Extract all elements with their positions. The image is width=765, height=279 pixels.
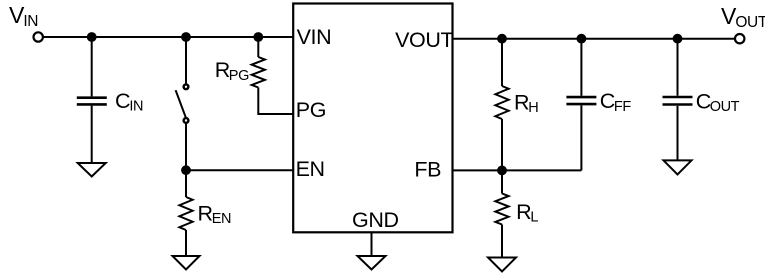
wire: CIN to ground bbox=[91, 106, 93, 163]
capacitor CFF bbox=[566, 96, 596, 99]
node: RH junction on output rail bbox=[498, 35, 506, 43]
wire: COUT to ground bbox=[677, 106, 679, 161]
node: CIN junction bbox=[88, 33, 96, 41]
ground (COUT) bbox=[664, 160, 692, 174]
switch SW lower contact bbox=[184, 118, 189, 123]
wire: RL to ground bbox=[501, 225, 503, 258]
wire: down to CIN bbox=[91, 37, 93, 96]
wire: down to COUT bbox=[677, 39, 679, 96]
label RPG bbox=[215, 58, 249, 84]
svg-text:EN: EN bbox=[296, 157, 325, 181]
svg-text:R: R bbox=[198, 202, 213, 226]
wire: down to RH bbox=[501, 39, 503, 86]
svg-text:OUT: OUT bbox=[710, 99, 740, 115]
resistor REN bbox=[179, 197, 192, 230]
svg-text:R: R bbox=[215, 58, 230, 82]
svg-text:FF: FF bbox=[614, 99, 631, 115]
switch SW upper contact bbox=[184, 84, 189, 89]
wire: switch to EN node bbox=[185, 123, 187, 170]
svg-text:R: R bbox=[514, 91, 529, 115]
node: FB junction bbox=[498, 167, 506, 175]
svg-text:C: C bbox=[696, 90, 711, 114]
wire: VOUT pin to output terminal bbox=[453, 38, 735, 40]
label RL bbox=[516, 200, 538, 226]
ground (REN) bbox=[173, 256, 200, 270]
label VOUT (output net) bbox=[721, 3, 765, 31]
svg-text:IN: IN bbox=[23, 13, 38, 30]
wire: GND pin stub bbox=[371, 232, 373, 256]
wire: CFF down to FB rail bbox=[580, 105, 582, 170]
wire: EN node down to REN bbox=[185, 170, 187, 197]
svg-text:GND: GND bbox=[352, 208, 399, 232]
node: CFF junction on output rail bbox=[578, 35, 586, 43]
input terminal VIN circle bbox=[34, 32, 43, 41]
wire: FB node down to RL bbox=[501, 170, 503, 193]
resistor RPG bbox=[252, 57, 265, 88]
wire: EN node to IC EN pin bbox=[186, 169, 293, 171]
svg-text:VIN: VIN bbox=[297, 25, 332, 49]
node: COUT junction on output rail bbox=[674, 35, 682, 43]
capacitor COUT bbox=[663, 96, 693, 99]
wire: down to CFF bbox=[580, 39, 582, 96]
ground (RL) bbox=[488, 258, 516, 272]
svg-text:H: H bbox=[528, 100, 538, 116]
svg-text:VOUT: VOUT bbox=[395, 28, 453, 52]
svg-text:OUT: OUT bbox=[735, 14, 765, 31]
capacitor CIN bbox=[77, 96, 107, 99]
svg-text:EN: EN bbox=[212, 211, 231, 227]
switch SW arm bbox=[176, 90, 186, 118]
output terminal VOUT circle bbox=[735, 34, 744, 43]
label CFF bbox=[600, 89, 632, 115]
wire: RPG to PG pin bbox=[258, 88, 293, 115]
label RH bbox=[514, 91, 538, 117]
node: RPG junction on input rail bbox=[254, 33, 262, 41]
wire: REN to ground bbox=[185, 230, 187, 256]
label VIN (input net) bbox=[9, 2, 38, 30]
ground (CIN) bbox=[78, 163, 106, 177]
wire: down to switch bbox=[185, 37, 187, 84]
resistor RL bbox=[495, 194, 508, 225]
wire: FB pin rail bbox=[453, 169, 582, 171]
wire: down to RPG bbox=[257, 37, 259, 57]
wire: RH to FB rail bbox=[501, 119, 503, 170]
svg-text:C: C bbox=[115, 89, 130, 113]
svg-text:R: R bbox=[516, 200, 531, 224]
wire: VIN terminal to IC VIN pin bbox=[44, 36, 293, 38]
svg-text:L: L bbox=[530, 210, 538, 226]
svg-text:IN: IN bbox=[129, 99, 143, 115]
label REN bbox=[198, 202, 232, 228]
label COUT bbox=[696, 90, 740, 116]
svg-text:PG: PG bbox=[229, 68, 249, 84]
label CIN bbox=[115, 89, 143, 115]
ground (IC GND) bbox=[358, 256, 386, 270]
svg-text:C: C bbox=[600, 89, 615, 113]
node: EN junction bbox=[182, 166, 190, 174]
svg-text:FB: FB bbox=[414, 158, 441, 182]
svg-text:PG: PG bbox=[296, 98, 326, 122]
op-amp U1 (regulator IC body) bbox=[293, 4, 452, 233]
resistor RH bbox=[495, 86, 508, 119]
node: switch junction on input rail bbox=[182, 33, 190, 41]
